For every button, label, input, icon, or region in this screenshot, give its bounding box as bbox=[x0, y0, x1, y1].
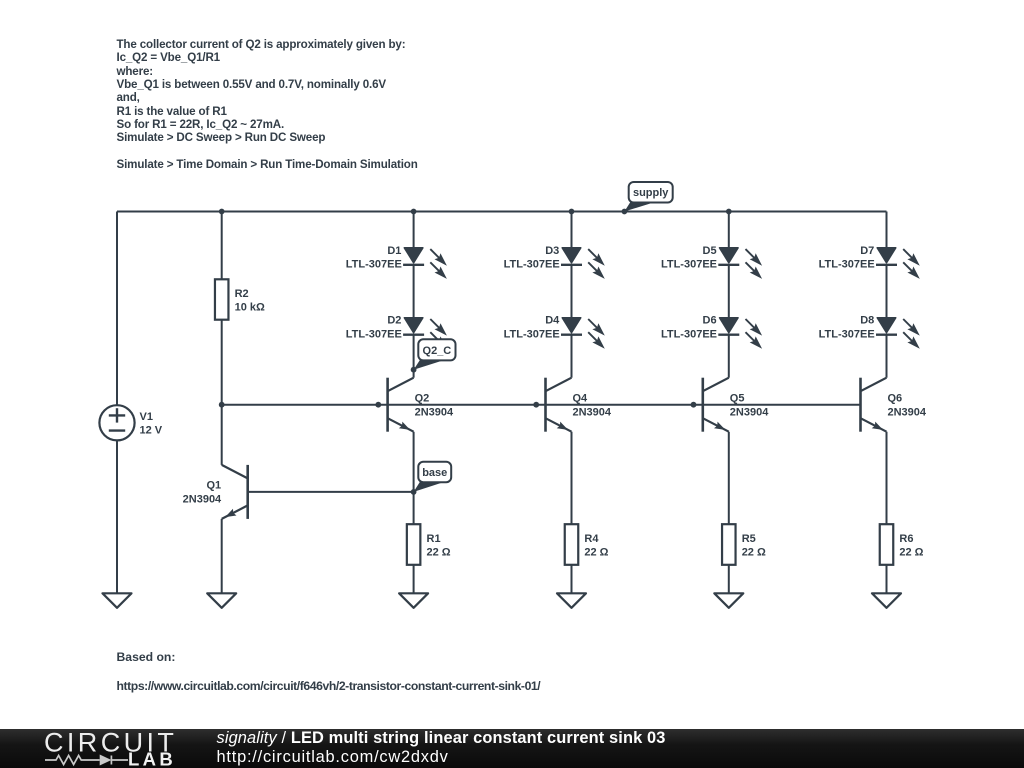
svg-text:2N3904: 2N3904 bbox=[730, 406, 769, 418]
svg-text:D8: D8 bbox=[860, 315, 874, 327]
wire: string 3 resistor to ground bbox=[728, 565, 730, 594]
note: top explanation text bbox=[117, 38, 418, 171]
transistor Q4 (2N3904 NPN) bbox=[546, 378, 612, 432]
svg-text:V1: V1 bbox=[140, 411, 153, 423]
wire: string 3 LED1 to LED2 bbox=[728, 265, 730, 318]
wire: base rail junction down to Q1 collector bbox=[221, 405, 223, 465]
wire: string 4 resistor to ground bbox=[886, 565, 888, 594]
LED D2 (LTL-307EE) bbox=[346, 315, 447, 349]
wire: string 1 LED2 to transistor collector bbox=[413, 335, 415, 378]
svg-text:R2: R2 bbox=[235, 288, 249, 300]
svg-text:Q4: Q4 bbox=[573, 392, 589, 404]
wire: string 2 LED2 to transistor collector bbox=[571, 335, 573, 378]
LED D3 (LTL-307EE) bbox=[504, 245, 605, 279]
node: base rail / Q5 base junction bbox=[691, 402, 697, 408]
wire: string 4 emitter to resistor bbox=[886, 432, 888, 525]
node: supply attachment bbox=[622, 209, 628, 215]
svg-text:D4: D4 bbox=[545, 315, 560, 327]
wire: string 2 resistor to ground bbox=[571, 565, 573, 594]
svg-text:LTL-307EE: LTL-307EE bbox=[504, 258, 560, 270]
node: top rail / R2 junction bbox=[219, 209, 225, 215]
wire: Q1 emitter to ground bbox=[221, 519, 223, 593]
svg-text:22 Ω: 22 Ω bbox=[427, 547, 451, 559]
svg-text:LTL-307EE: LTL-307EE bbox=[661, 328, 717, 340]
svg-text:R1: R1 bbox=[427, 533, 441, 545]
resistor R6 bbox=[880, 524, 924, 565]
logo resistor-diode glyph bbox=[45, 756, 128, 765]
svg-text:2N3904: 2N3904 bbox=[573, 406, 612, 418]
LED D5 (LTL-307EE) bbox=[661, 245, 762, 279]
svg-text:22 Ω: 22 Ω bbox=[584, 547, 608, 559]
wire: string 1 emitter to resistor bbox=[413, 432, 415, 525]
ground (under R4) bbox=[557, 593, 586, 608]
svg-text:D5: D5 bbox=[703, 245, 717, 257]
transistor Q1 (2N3904 NPN) bbox=[183, 465, 248, 519]
svg-text:LAB: LAB bbox=[128, 748, 176, 768]
LED D8 (LTL-307EE) bbox=[819, 315, 920, 349]
wire: string 1 LED1 to LED2 bbox=[413, 265, 415, 318]
svg-text:2N3904: 2N3904 bbox=[183, 494, 222, 506]
node: base rail / R2 column junction bbox=[219, 402, 225, 408]
CircuitLab logo bbox=[0, 729, 200, 768]
node: Q2_C bbox=[411, 367, 417, 373]
wire: string 3 emitter to resistor bbox=[728, 432, 730, 525]
voltage source V1 12V bbox=[99, 405, 162, 440]
svg-text:LTL-307EE: LTL-307EE bbox=[504, 328, 560, 340]
svg-text:D2: D2 bbox=[387, 315, 401, 327]
resistor R1 bbox=[407, 524, 451, 565]
footer url line bbox=[217, 748, 449, 767]
wire: left rail from top rail to V1 bbox=[116, 212, 118, 406]
svg-text:22 Ω: 22 Ω bbox=[899, 547, 923, 559]
node: base rail / Q4 base junction bbox=[533, 402, 539, 408]
LED D7 (LTL-307EE) bbox=[819, 245, 920, 279]
svg-text:Q2: Q2 bbox=[415, 392, 430, 404]
node: base (Q1 base / Q2 emitter) bbox=[411, 489, 417, 495]
wire: string 2 LED1 to LED2 bbox=[571, 265, 573, 318]
svg-text:D1: D1 bbox=[387, 245, 401, 257]
node: base rail / Q2 base junction bbox=[375, 402, 381, 408]
svg-text:D3: D3 bbox=[545, 245, 559, 257]
wire: R2 to base rail junction bbox=[221, 320, 223, 405]
transistor Q6 (2N3904 NPN) bbox=[861, 378, 927, 432]
footer bar bbox=[0, 729, 1024, 768]
wire: top rail to LED string 3 bbox=[728, 212, 730, 248]
wire: base rail (R2 junction to Q6 base) bbox=[222, 404, 861, 406]
svg-text:R5: R5 bbox=[742, 533, 756, 545]
svg-text:LTL-307EE: LTL-307EE bbox=[346, 328, 402, 340]
transistor Q5 (2N3904 NPN) bbox=[703, 378, 769, 432]
svg-text:Q6: Q6 bbox=[888, 392, 903, 404]
svg-text:Q2_C: Q2_C bbox=[423, 345, 452, 357]
svg-text:Q1: Q1 bbox=[207, 480, 222, 492]
svg-text:2N3904: 2N3904 bbox=[415, 406, 454, 418]
wire: top rail to LED string 2 bbox=[571, 212, 573, 248]
svg-text:10 kΩ: 10 kΩ bbox=[235, 302, 265, 314]
svg-text:LTL-307EE: LTL-307EE bbox=[346, 258, 402, 270]
net flag: Q2_C bbox=[414, 339, 456, 369]
ground (under Q1) bbox=[207, 593, 236, 608]
node: top rail / string 1 junction bbox=[411, 209, 417, 215]
svg-text:LTL-307EE: LTL-307EE bbox=[819, 328, 875, 340]
LED D1 (LTL-307EE) bbox=[346, 245, 447, 279]
svg-text:R4: R4 bbox=[584, 533, 599, 545]
svg-text:2N3904: 2N3904 bbox=[888, 406, 927, 418]
svg-text:supply: supply bbox=[633, 187, 669, 199]
wire: top rail to R2 bbox=[221, 212, 223, 280]
wire: top rail to LED string 1 bbox=[413, 212, 415, 248]
svg-text:D7: D7 bbox=[860, 245, 874, 257]
svg-text:Q5: Q5 bbox=[730, 392, 745, 404]
footer title line bbox=[217, 729, 666, 748]
wire: string 3 LED2 to transistor collector bbox=[728, 335, 730, 378]
ground (under R6) bbox=[872, 593, 901, 608]
resistor R2 bbox=[215, 279, 265, 319]
ground (under R5) bbox=[714, 593, 743, 608]
svg-text:R6: R6 bbox=[899, 533, 913, 545]
wire: string 2 emitter to resistor bbox=[571, 432, 573, 525]
node: top rail / string 3 junction bbox=[726, 209, 732, 215]
svg-text:LTL-307EE: LTL-307EE bbox=[819, 258, 875, 270]
wire: string 4 LED2 to transistor collector bbox=[886, 335, 888, 378]
wire: string 4 top rail corner bbox=[886, 212, 888, 248]
wire: V1 to ground bbox=[116, 440, 118, 593]
ground (under R1) bbox=[399, 593, 428, 608]
svg-text:LTL-307EE: LTL-307EE bbox=[661, 258, 717, 270]
note: based-on reference bbox=[117, 651, 176, 664]
wire: Q1 base to base node bbox=[248, 491, 414, 493]
resistor R5 bbox=[722, 524, 766, 565]
transistor Q2 (2N3904 NPN) bbox=[388, 378, 454, 432]
svg-text:12 V: 12 V bbox=[140, 425, 163, 437]
LED D4 (LTL-307EE) bbox=[504, 315, 605, 349]
ground (under V1) bbox=[103, 593, 132, 608]
resistor R4 bbox=[565, 524, 609, 565]
net flag: supply bbox=[624, 182, 672, 212]
wire: string 1 resistor to ground bbox=[413, 565, 415, 594]
net flag: base bbox=[414, 462, 452, 492]
wire: top supply rail bbox=[117, 211, 887, 213]
node: top rail / string 2 junction bbox=[569, 209, 575, 215]
svg-text:base: base bbox=[422, 467, 447, 479]
LED D6 (LTL-307EE) bbox=[661, 315, 762, 349]
wire: string 4 LED1 to LED2 bbox=[886, 265, 888, 318]
svg-text:D6: D6 bbox=[703, 315, 717, 327]
svg-text:22 Ω: 22 Ω bbox=[742, 547, 766, 559]
